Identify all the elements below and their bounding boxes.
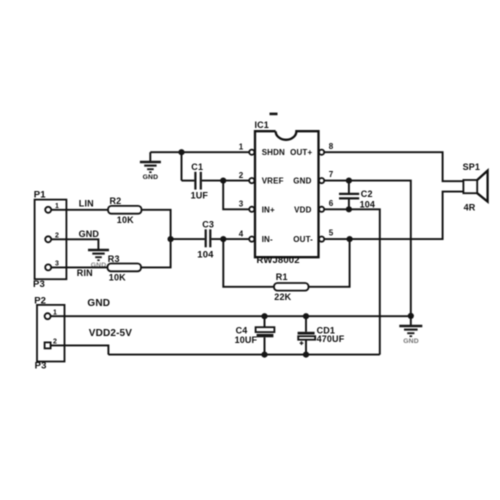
pin 3 number — [239, 200, 244, 209]
svg-text:R1: R1 — [276, 272, 288, 282]
pin 8 number — [329, 142, 334, 151]
svg-text:IN-: IN- — [262, 235, 273, 244]
node junction C4/GND rail — [261, 313, 267, 319]
capacitor C4 — [235, 316, 275, 354]
svg-text:R3: R3 — [108, 254, 120, 264]
pin 5 circle — [319, 237, 324, 242]
svg-text:4R: 4R — [464, 202, 476, 212]
svg-text:2: 2 — [239, 171, 244, 180]
connector P2 body — [37, 305, 65, 362]
P1 pin 2 circle — [45, 236, 51, 242]
pin 6 circle — [319, 207, 324, 212]
svg-text:VDD: VDD — [294, 205, 311, 214]
P1 pin 2 number — [55, 233, 59, 240]
node junction C2/pin6 — [346, 206, 352, 212]
P2 pin 1 number — [53, 309, 57, 316]
connector P1 body — [35, 200, 67, 280]
wire drop to ground from SHDN net — [149, 152, 151, 161]
svg-text:IC1: IC1 — [255, 120, 269, 130]
net label VDD2-5V — [89, 328, 132, 339]
svg-text:C1: C1 — [191, 162, 203, 172]
connector P1 bottom label P3 — [33, 279, 45, 290]
svg-text:VREF: VREF — [262, 177, 284, 186]
connector P2 bottom label P3 — [35, 360, 47, 371]
svg-text:GND: GND — [403, 338, 419, 345]
svg-text:1UF: 1UF — [191, 190, 209, 200]
net label RIN — [77, 268, 93, 278]
connector P1 label — [34, 190, 46, 201]
wire pin8 OUT+ to speaker — [324, 152, 463, 181]
node junction CD1/GND rail — [303, 313, 309, 319]
svg-text:104: 104 — [197, 250, 214, 261]
capacitor C2 — [339, 181, 375, 210]
pin 4 number — [239, 230, 244, 239]
svg-text:LIN: LIN — [79, 199, 94, 209]
pin 7 circle — [319, 178, 324, 183]
svg-text:22K: 22K — [274, 292, 291, 302]
wire pin5 OUT- to speaker — [324, 192, 463, 240]
svg-text:IN+: IN+ — [262, 205, 275, 214]
pin 3 circle — [249, 207, 254, 212]
node junction R1/OUT- — [347, 236, 353, 242]
capacitor C3 — [171, 219, 250, 260]
svg-text:5: 5 — [329, 229, 334, 238]
net label GND at P2.1 — [87, 298, 110, 309]
connector P2 label — [34, 295, 46, 306]
op-amp IC1 label — [255, 120, 269, 130]
capacitor CD1 polarized — [298, 316, 345, 354]
wire VDD rail — [108, 354, 379, 356]
svg-text:GND: GND — [79, 229, 100, 239]
svg-text:GND: GND — [87, 298, 110, 309]
capacitor C1 — [182, 162, 250, 201]
svg-text:3: 3 — [239, 200, 244, 209]
node junction pin1/C1 — [178, 149, 184, 155]
pin 4 circle — [249, 237, 254, 242]
pin 5 number — [329, 229, 334, 238]
svg-text:10UF: 10UF — [235, 335, 258, 345]
svg-text:RIN: RIN — [77, 268, 93, 278]
pin 1 number — [239, 143, 244, 152]
svg-text:10K: 10K — [109, 272, 126, 282]
wire P1.1 to R2 — [51, 209, 108, 211]
P1 pin 3 circle — [45, 264, 51, 270]
op-amp IC1 overline mark — [270, 113, 278, 116]
svg-text:R2: R2 — [110, 196, 122, 206]
wire pin7 GND net — [324, 181, 411, 316]
wire stub into bottom ground — [410, 316, 412, 325]
svg-text:VDD2-5V: VDD2-5V — [89, 328, 132, 339]
IC1 part number label RWJ8002 — [257, 255, 300, 266]
wire pin1 SHDN horizontal — [150, 151, 249, 153]
svg-text:10K: 10K — [117, 215, 134, 225]
wire feedback branch down to R1 — [223, 239, 274, 287]
node junction R2/R3 — [168, 236, 174, 242]
ground symbol below P1 — [88, 250, 109, 269]
resistor R3 — [108, 254, 142, 282]
speaker SP1 — [463, 162, 488, 212]
svg-text:104: 104 — [360, 200, 375, 210]
svg-text:7: 7 — [329, 170, 334, 179]
wire pin2 to pin3 link — [223, 181, 249, 210]
pin 2 circle — [249, 178, 254, 183]
pin 1 circle — [249, 150, 254, 155]
resistor R2 — [108, 196, 142, 225]
svg-text:C2: C2 — [361, 189, 373, 199]
svg-text:C3: C3 — [202, 219, 214, 229]
svg-text:P3: P3 — [33, 279, 45, 290]
svg-text:6: 6 — [329, 199, 334, 208]
ground symbol bottom right — [399, 326, 422, 345]
wire R3 out to join node — [141, 239, 171, 267]
node junction CD1/VDD rail — [303, 352, 309, 358]
svg-text:RWJ8002: RWJ8002 — [257, 255, 300, 266]
pin 6 number — [329, 199, 334, 208]
wire GND rail — [51, 315, 411, 317]
svg-text:4: 4 — [239, 230, 244, 239]
svg-text:SP1: SP1 — [463, 162, 480, 172]
P1 pin 3 number — [55, 261, 59, 268]
pin 2 number — [239, 171, 244, 180]
wire C1 branch vertical — [181, 152, 183, 180]
svg-text:P3: P3 — [35, 360, 47, 371]
net label GND at P1.2 — [79, 229, 100, 239]
node junction C2/pin7 — [346, 178, 352, 184]
net label LIN — [79, 199, 94, 209]
svg-text:OUT-: OUT- — [293, 235, 313, 244]
svg-text:470UF: 470UF — [317, 334, 345, 344]
node junction C1/pin2/pin3 — [220, 178, 226, 184]
wire pin6 VDD net down to rail — [324, 209, 380, 354]
wire P1.3 to R3 — [51, 266, 107, 268]
P2 pin 2 number — [53, 339, 57, 346]
svg-text:GND: GND — [293, 177, 311, 186]
P2 pin 2 pad — [45, 342, 51, 348]
node junction C3/pin4/R1 — [220, 236, 226, 242]
P2 pin 1 circle — [45, 313, 51, 319]
P1 pin 1 number — [55, 203, 59, 210]
wire R1 up to OUT- net — [309, 239, 350, 287]
svg-text:1: 1 — [239, 143, 244, 152]
op-amp U1 body RWJ8002 — [255, 131, 319, 257]
P1 pin 1 circle — [45, 207, 51, 213]
svg-text:GND: GND — [143, 174, 159, 181]
node junction C4/VDD rail — [261, 352, 267, 358]
wire P1.2 to ground — [51, 239, 98, 249]
pin 8 circle — [319, 150, 324, 155]
wire R2 out to join node — [142, 210, 171, 239]
pin 7 number — [329, 170, 334, 179]
resistor R1 — [274, 272, 309, 302]
svg-text:SHDN: SHDN — [262, 148, 285, 157]
svg-text:OUT+: OUT+ — [290, 148, 312, 157]
node junction GND rail / pin7 drop — [408, 313, 414, 319]
svg-text:8: 8 — [329, 142, 334, 151]
ground symbol near C1 — [140, 162, 161, 181]
wire P2.2 VDD step — [51, 345, 109, 354]
